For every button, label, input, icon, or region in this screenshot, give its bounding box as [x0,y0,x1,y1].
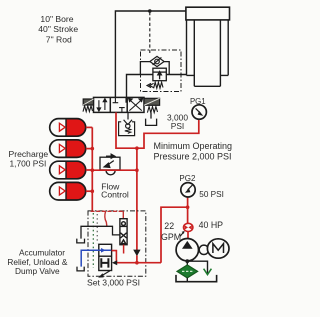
arrow blue in dump valve [101,248,106,253]
wire red pilot to dump valve [116,262,161,264]
svg-text:7" Rod: 7" Rod [46,34,72,44]
wire red along box top to relief [91,210,124,212]
svg-text:PSI: PSI [171,121,185,131]
filter strainer F1 [177,265,198,278]
directional valve DV1 body [94,97,145,112]
directional valve centre position blocked ports [113,98,126,112]
spring right [147,107,157,113]
directional valve left position arrows [97,99,106,112]
wire counterbalance to cylinder rod port [166,74,186,76]
check valve arc under flow control [106,170,115,175]
solenoid left [83,99,93,105]
svg-text:GPM: GPM [161,232,181,242]
wire red relief valve top stub [122,211,124,218]
arrow pilot into dump valve [112,260,117,265]
shutoff valve bowtie [185,225,188,229]
node red junction P-line [135,146,139,150]
wire red below arrow to pilot tee [136,255,138,262]
directional valve right position crossed arrows [129,98,143,110]
node red junction pilot tee [135,261,139,265]
svg-text:40" Stroke: 40" Stroke [38,24,78,34]
gauge PG1 [192,105,206,119]
wire red PG2 junction down to shutoff [187,207,189,223]
counterbalance dashed enclosure [141,50,182,92]
gauge PG2 needle [185,185,193,193]
node junctions on bus [91,147,95,151]
solenoid right [144,98,160,105]
counterbalance spring [154,82,163,88]
relief valve RV1 body [120,219,127,245]
wire check bypass around counterbalance [140,62,169,75]
gauge PG2 [181,183,195,197]
wire red right leg up to PG2 [161,207,188,263]
shutoff valve red circle [184,223,193,231]
pump P1 triangle [182,241,193,249]
svg-text:Set 3,000 PSI: Set 3,000 PSI [87,278,140,288]
wire filter to tank [186,278,188,282]
check valve CV1 diamond [150,56,164,66]
accumulator ACC2 [50,140,93,158]
coupling circle [199,245,208,254]
accumulator ACC3 [50,161,93,179]
tank symbol relief drain [77,239,85,243]
accumulator ACC1 [50,119,93,137]
wire branch to bypass drain [187,261,207,273]
svg-text:50 PSI: 50 PSI [199,190,224,199]
wire red shutoff to pump [187,232,189,240]
tank reservoir [176,275,217,282]
label cylinder specs [38,14,78,45]
wire red through flow control [99,169,121,171]
wire red system line down [136,148,138,250]
wire B-line valve to counterbalance [127,75,153,98]
svg-text:PG2: PG2 [179,174,196,183]
cylinder CYL1 rod [194,20,220,86]
wire pump suction [186,261,188,265]
check valve CV2 to tank under valve [119,112,135,135]
svg-text:Pressure 2,000 PSI: Pressure 2,000 PSI [154,151,232,161]
svg-text:10" Bore: 10" Bore [40,14,73,24]
wire red PG2 stub [187,197,189,207]
wire blue dump line [81,250,111,266]
wire red link dump valve to pilot line [112,251,117,263]
counterbalance arrow marks [147,83,154,87]
wire red pump pressure P-line to gauge PG1 [116,112,199,148]
dump valve DV2 body [99,244,112,270]
tank symbol under right end [146,112,157,125]
unload valve dashed enclosure [88,211,146,276]
pump P1 [176,239,198,261]
wire red accumulator line through flow control [92,169,137,171]
gauge PG1 needle [196,108,204,116]
svg-text:Accumulator: Accumulator [19,247,65,257]
pilot dotted to dump valve top [96,214,98,244]
svg-text:40 HP: 40 HP [199,220,224,230]
flow control valve FC1 [100,154,120,170]
cylinder CYL1 barrel walls [187,20,229,76]
arrow annotation to pump line [180,232,184,236]
dump valve blocked marks [101,258,108,267]
node red junction below PG2 [186,205,190,209]
drain line green dotted inside box [92,213,94,268]
node red junction at flow line [135,168,139,172]
arrow flow marker on system line [133,250,140,257]
svg-text:1,700 PSI: 1,700 PSI [10,158,47,168]
wire red drop into box [105,211,107,226]
spring left [83,106,92,112]
svg-text:Minimum Operating: Minimum Operating [154,141,233,151]
tank symbol dump line [77,267,84,271]
node red junction bus top of flow line [91,168,95,172]
wire red accumulator bus [91,127,93,211]
svg-text:Control: Control [101,190,129,200]
svg-text:Dump Valve: Dump Valve [15,266,60,276]
wire relief drain to tank [81,226,120,238]
node junction on A-line [148,9,152,13]
node suction junction [185,259,189,263]
wire A-line valve to cylinder cap [115,11,185,97]
motor M1 [207,239,229,258]
label M motor [213,244,224,253]
wire red relief bottom [123,245,125,254]
arrow pilot adjust below dump valve [98,271,110,278]
svg-text:22: 22 [164,221,174,231]
counterbalance valve CB1 body [153,68,166,81]
accumulator ACC4 [50,182,93,200]
check arrow green into tank [204,269,212,275]
svg-text:PG1: PG1 [190,97,206,106]
cylinder CYL1 cap/piston [186,7,230,20]
pilot line dashed to counterbalance [149,12,151,54]
